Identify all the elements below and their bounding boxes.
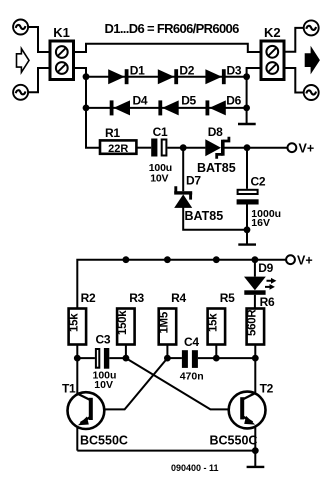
svg-text:R6: R6	[260, 295, 275, 309]
wire R1 to C1	[136, 147, 151, 149]
svg-text:D7: D7	[186, 173, 201, 187]
capacitor C4 (film)	[180, 335, 204, 383]
diode D3	[205, 64, 241, 85]
diode D1	[108, 64, 145, 85]
wire cross-coupling R4 node to T1 base	[93, 358, 168, 409]
svg-text:D8: D8	[208, 125, 223, 139]
wire D9 anode	[254, 260, 256, 277]
wire cross-coupling R3 node to T2 base	[126, 358, 240, 409]
connector K1	[50, 25, 74, 80]
ground under C2	[238, 243, 256, 245]
junction node rail/R5	[213, 256, 220, 263]
wire R2 bottom to T1 collector	[76, 345, 78, 394]
wire diode row D1-D3	[86, 76, 247, 78]
AC source circle top-right	[304, 20, 319, 35]
ground under D6 junction	[238, 123, 256, 125]
resistor R2	[68, 291, 96, 345]
svg-text:150k: 150k	[117, 310, 129, 335]
junction node T1 collector / C3	[74, 355, 81, 362]
output arrow (solid)	[305, 48, 319, 73]
wire AC source bottom-left to K1 lower terminal	[28, 68, 50, 92]
wire K2 lower terminal to AC bottom-right	[284, 68, 304, 93]
junction node rail/R4	[164, 256, 171, 263]
svg-text:1M5: 1M5	[158, 311, 170, 333]
svg-text:BAT85: BAT85	[197, 161, 236, 175]
wire K2 upper terminal to AC top-right	[284, 28, 304, 52]
resistor R1	[100, 126, 136, 155]
diode D8 BAT85	[197, 125, 236, 175]
svg-text:10V: 10V	[150, 172, 168, 184]
junction node D7/C2 ground	[244, 226, 251, 233]
LED D9	[244, 261, 276, 295]
junction node R6 / T2 collector	[252, 355, 259, 362]
terminal V+ bottom	[286, 255, 295, 264]
svg-text:16V: 16V	[251, 217, 270, 229]
AC source circle bottom-right	[304, 85, 319, 100]
svg-text:R2: R2	[81, 291, 96, 305]
svg-text:K1: K1	[53, 25, 70, 40]
transistor T2 BC550C	[210, 381, 274, 447]
svg-text:560R: 560R	[246, 309, 258, 336]
capacitor C2 (electrolytic)	[237, 175, 281, 230]
diode D6	[206, 94, 242, 116]
AC source circle top-left	[13, 20, 28, 35]
wire D8 cathode to V+	[224, 147, 288, 149]
svg-text:10V: 10V	[94, 379, 113, 391]
junction node C1/D7/D8	[180, 144, 187, 151]
junction node D3 row right	[243, 73, 250, 80]
wire diode row D4-D6	[86, 107, 247, 109]
wire C4 right plate through R5 node to T2 collector column	[198, 357, 255, 359]
junction node K1 lower / D1 row	[83, 73, 90, 80]
junction node rail/D9	[252, 256, 259, 263]
transistor T1 BC550C	[62, 381, 128, 447]
wire node to D7 cathode	[182, 148, 184, 192]
svg-text:D4: D4	[133, 94, 148, 108]
junction node C4 / R5	[213, 355, 220, 362]
wire C1 to D8 anode with node	[167, 147, 205, 149]
junction node D6 row right	[243, 105, 250, 112]
wire right bus D3/D6 junction up to K2 lower terminal	[247, 68, 261, 123]
svg-text:R5: R5	[220, 291, 235, 305]
svg-text:C2: C2	[251, 175, 266, 189]
svg-text:D1...D6 = FR606/PR6006: D1...D6 = FR606/PR6006	[105, 21, 240, 36]
svg-text:22R: 22R	[108, 143, 128, 155]
wire bottom rail	[77, 450, 255, 452]
wire K1 upper terminal to top rail to K2 upper terminal	[74, 44, 262, 52]
svg-text:D5: D5	[181, 94, 196, 108]
wire D9 cathode to R6	[254, 295, 256, 309]
svg-text:470n: 470n	[180, 370, 204, 382]
terminal V+ middle	[288, 143, 297, 152]
wire C2 node down from V+ line	[246, 148, 248, 189]
wire K1 lower terminal down left bus to R1	[74, 68, 101, 148]
svg-text:T1: T1	[62, 381, 76, 395]
junction node K1 lower / D4 row	[83, 105, 90, 112]
wire AC source top-left to K1 upper terminal	[28, 27, 50, 52]
svg-text:R3: R3	[129, 291, 144, 305]
junction node C4 / R4	[164, 355, 171, 362]
junction node T2 emitter / bottom rail	[252, 447, 259, 454]
capacitor C3 (electrolytic)	[93, 332, 117, 391]
svg-text:D1: D1	[130, 64, 145, 78]
wire R3 bottom to node	[125, 345, 127, 359]
wire C3 right plate to R3 node	[109, 357, 126, 359]
svg-text:D6: D6	[226, 94, 241, 108]
junction node D8/C2/V+	[244, 144, 251, 151]
svg-text:R4: R4	[171, 291, 186, 305]
wire R5 bottom to node	[215, 345, 217, 359]
junction node C3 / R3	[123, 355, 130, 362]
wire C2 bottom to ground	[246, 205, 248, 244]
svg-text:BAT85: BAT85	[185, 209, 224, 223]
svg-text:15k: 15k	[68, 313, 80, 332]
svg-text:BC550C: BC550C	[80, 433, 128, 447]
wire node R2 to C3 left plate	[77, 357, 95, 359]
wire T1 emitter to bottom rail	[76, 426, 78, 451]
svg-text:15k: 15k	[207, 313, 219, 332]
svg-text:090400 - 11: 090400 - 11	[171, 463, 219, 473]
junction node rail/R3	[123, 256, 130, 263]
wire R6 bottom to T2 collector	[254, 345, 256, 394]
diode D2	[158, 64, 195, 85]
diode D4	[110, 94, 148, 116]
input arrow (hollow)	[17, 49, 30, 73]
svg-text:R1: R1	[105, 126, 120, 140]
svg-text:D2: D2	[179, 64, 194, 78]
svg-text:C3: C3	[96, 332, 111, 346]
diode D7 BAT85 (pointing up)	[174, 173, 223, 223]
resistor R5	[207, 291, 235, 345]
resistor R6	[246, 295, 275, 345]
diode D5	[158, 94, 196, 116]
svg-text:D9: D9	[258, 261, 273, 275]
connector K2	[261, 25, 284, 80]
wire T2 emitter down to bottom rail	[254, 425, 256, 451]
svg-text:V+: V+	[299, 141, 315, 155]
svg-text:C1: C1	[153, 125, 168, 139]
ground bottom	[247, 466, 265, 468]
capacitor C1 (electrolytic)	[149, 125, 172, 185]
wire D7 anode down and right to C2 bottom node	[183, 207, 247, 230]
svg-text:T2: T2	[260, 381, 274, 395]
svg-text:BC550C: BC550C	[210, 433, 258, 447]
AC source circle bottom-left	[13, 85, 28, 100]
wire bottom V+ rail	[77, 260, 286, 309]
wire R4 bottom to node	[166, 345, 168, 359]
wire R4 node to C4 left plate	[167, 357, 182, 359]
svg-text:V+: V+	[297, 253, 313, 267]
resistor R3	[117, 291, 145, 345]
wire bottom ground stem	[254, 451, 256, 467]
svg-text:K2: K2	[264, 25, 281, 40]
resistor R4	[158, 291, 186, 345]
svg-text:C4: C4	[184, 335, 199, 349]
svg-text:D3: D3	[227, 64, 242, 78]
